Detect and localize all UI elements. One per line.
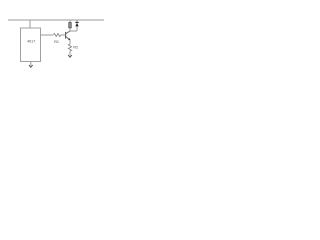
resistor R1 zigzag [54,34,61,37]
resistor R2 zigzag [68,44,71,51]
power rail wire (+V) [8,19,104,21]
ground arrow (emitter branch) [68,55,72,57]
wire R2 to ground [69,51,71,55]
svg-text:4017: 4017 [27,40,35,44]
wire rail to diode D1 cathode [76,20,78,22]
transistor Q1 base bar [65,32,67,39]
transistor Q1 emitter stroke with arrow [66,36,70,40]
IC U1 body [21,28,41,62]
relay coil K1 box [69,23,71,28]
diode D1 triangle [75,23,78,27]
svg-text:R2: R2 [73,46,78,50]
wire emitter to resistor R2 [69,40,71,44]
wire rail to relay coil [69,20,71,23]
wire from rail to IC top [29,20,31,28]
wire IC bottom to ground [30,62,32,66]
wire collector node joiner [70,30,77,32]
ground arrow (IC branch) [29,65,33,67]
wire relay coil to collector node [69,28,71,31]
wire IC output to resistor R1 [41,34,54,36]
transistor Q1 collector stroke [66,31,70,34]
wire R1 to transistor base [61,34,66,36]
diode D1 cathode bar [75,21,78,23]
svg-text:R1: R1 [54,40,59,44]
wire diode D1 anode to collector node [76,26,78,31]
